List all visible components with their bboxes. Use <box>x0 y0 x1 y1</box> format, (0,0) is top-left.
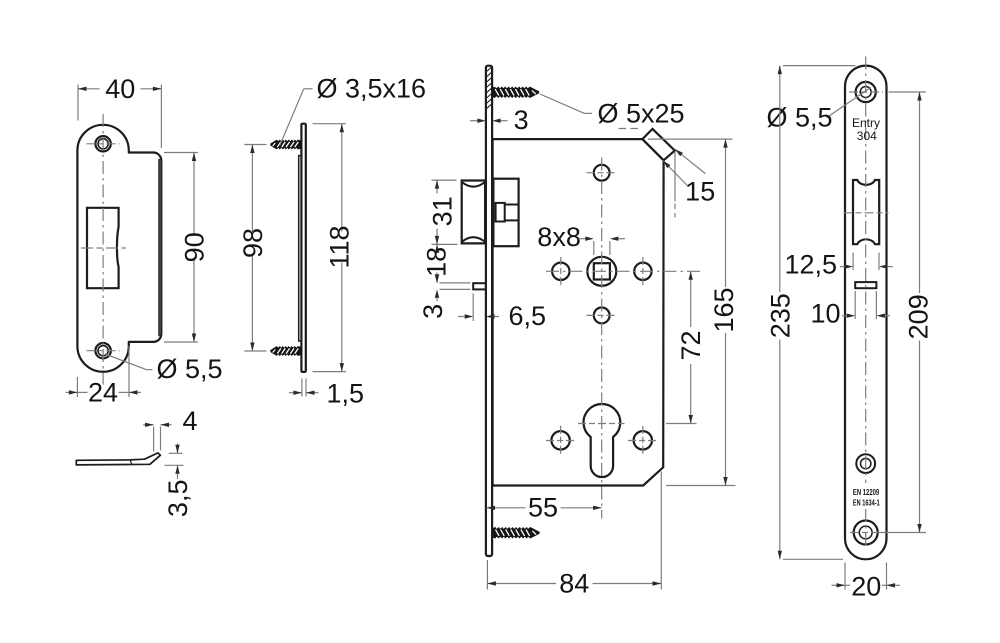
dim 6,5 extension line <box>472 294 474 322</box>
dim 3 right arrow <box>492 119 501 123</box>
dim 12,5 left extension line <box>852 253 854 271</box>
dim 6,5 dimension line <box>458 316 465 318</box>
strike plate vertical center line <box>102 114 104 385</box>
dim 31 bottom arrow <box>435 236 439 245</box>
svg-text:235: 235 <box>765 293 795 338</box>
strike plate bottom screw hole outer <box>95 343 110 358</box>
bottom hole horizontal center tick <box>87 350 120 352</box>
svg-text:24: 24 <box>88 378 118 408</box>
phantom dashes at tab top <box>619 128 643 130</box>
dim 3 stub arrow tails <box>436 273 438 275</box>
svg-text:98: 98 <box>238 228 268 258</box>
bent corner tab parallelogram <box>642 129 674 160</box>
dim 12,5 left arrow <box>845 264 854 268</box>
top hole center tick <box>587 172 618 174</box>
dim 8x8 right extension line <box>609 241 611 255</box>
dim 209 dimension line <box>919 92 921 293</box>
dim 118 bottom extension line <box>313 371 347 373</box>
lock vertical center line <box>601 158 603 519</box>
lock faceplate side bar <box>486 66 492 556</box>
top through hole <box>594 165 610 181</box>
bottom hole center tick <box>587 314 618 316</box>
top hole horizontal center tick <box>87 143 120 145</box>
svg-text:8x8: 8x8 <box>537 222 581 252</box>
label dia 5,5 right leader <box>827 88 871 118</box>
dim 24 right extension line <box>128 346 130 397</box>
faceplate roller cutout <box>853 180 879 244</box>
dim 15 upper arrow line <box>675 149 706 173</box>
svg-text:40: 40 <box>105 74 135 104</box>
faceplate top screw hole outer <box>856 82 876 102</box>
svg-text:304: 304 <box>857 129 877 143</box>
strike plate outline with lip, front view <box>77 125 161 372</box>
dim 8x8 right arrow line <box>618 238 625 240</box>
svg-text:72: 72 <box>676 330 706 360</box>
dim 3,5 bottom extension line <box>164 464 183 466</box>
dim 84 right arrow <box>653 581 662 585</box>
cyl right hole h tick <box>628 440 658 442</box>
svg-text:165: 165 <box>709 287 739 332</box>
dim 12,5 right arrow <box>879 264 888 268</box>
lock case outline with chamfered corners <box>493 139 664 485</box>
faceplate top hole h tick <box>849 91 883 93</box>
dim 84 left extension line <box>486 560 488 590</box>
faceplate bottom hole h tick <box>850 532 882 534</box>
dim 10 left extension line <box>854 291 856 319</box>
faceplate top screw hole inner <box>860 87 871 98</box>
dim 31 top extension line <box>432 179 457 181</box>
dim 1,5 right arrow <box>306 391 315 395</box>
svg-text:18: 18 <box>422 247 452 277</box>
dim 90 top extension line <box>164 152 198 154</box>
strike plate side view bar <box>301 124 305 372</box>
faceplate front outline <box>845 66 887 560</box>
dim 18 dimension line <box>436 244 438 249</box>
dim 15 lower arrow line <box>663 161 688 187</box>
follower square 8x8 <box>594 263 610 279</box>
dim 31 dimension line <box>436 180 438 193</box>
dim 209 bottom arrow <box>917 524 921 533</box>
dim 31 bottom extension line <box>432 243 458 245</box>
follower hub circle <box>587 257 616 286</box>
dim 3,5 dimension line <box>177 444 179 454</box>
svg-text:209: 209 <box>904 294 934 339</box>
dim 40 left extension line <box>77 85 79 121</box>
strike plate bottom screw hole inner <box>98 346 108 356</box>
dim 8x8 left arrow line <box>579 238 586 240</box>
hub left hole vertical tick <box>560 257 562 286</box>
lock faceplate hatching <box>486 67 492 73</box>
dim 3 left arrow <box>477 119 486 123</box>
label dia 3,5x16 leader <box>280 89 304 145</box>
svg-text:EN 12209: EN 12209 <box>853 488 880 497</box>
strike plate top screw hole inner <box>98 139 108 149</box>
dim 4 right extension line <box>160 427 162 451</box>
dim 12,5 right extension line <box>878 253 880 271</box>
svg-text:3: 3 <box>418 304 448 319</box>
dim 4 left extension line <box>153 427 155 452</box>
cylinder right screw hole <box>634 431 652 449</box>
dim 40 right arrow <box>153 87 162 91</box>
dim 118 bottom arrow <box>340 363 344 372</box>
faceplate fixing hole outer <box>856 454 875 473</box>
dim 10 right extension line <box>875 291 877 319</box>
dim 72 dimension line <box>690 271 692 327</box>
dim 15 upper arrow <box>675 149 683 156</box>
hub left hole <box>552 263 569 280</box>
dim 209 top arrow <box>917 92 921 101</box>
dim 4 dimension line <box>143 424 153 426</box>
top fixing screw 5x25 <box>493 87 539 98</box>
svg-text:Ø 5,5: Ø 5,5 <box>767 102 833 132</box>
cylinder left screw hole <box>551 431 569 449</box>
strike plate side view lip bar <box>299 156 302 341</box>
faceplate slot <box>855 282 876 288</box>
dim 235 dimension line <box>779 66 781 292</box>
dim 15 lower arrow <box>663 161 671 169</box>
dim 20 left extension line <box>844 563 846 590</box>
dim 90 top arrow <box>192 153 196 162</box>
dim 1,5 left extension line <box>301 378 303 396</box>
dim 24 dimension line <box>66 391 78 393</box>
svg-text:4: 4 <box>182 406 197 436</box>
latch guide lower line <box>505 219 519 221</box>
dim 118 dimension line <box>341 124 343 232</box>
dim 98 top arrow <box>250 145 254 154</box>
phantom line right of tab <box>674 151 676 201</box>
dim 3 stub top extension line <box>440 282 471 284</box>
svg-text:90: 90 <box>180 232 210 262</box>
dim 235 top arrow <box>778 66 782 75</box>
dim 55 left arrow <box>487 506 496 510</box>
faceplate fixing hole inner <box>861 458 871 468</box>
latch body box <box>493 179 518 247</box>
svg-text:Ø 5x25: Ø 5x25 <box>598 98 685 128</box>
dim 4 left arrow <box>145 423 154 427</box>
dim 235 top extension line <box>783 65 856 67</box>
label dia 5x25 leader <box>540 94 585 113</box>
bottom fixing screw 5x25 <box>493 527 539 538</box>
strike plate top screw hole outer <box>95 136 110 151</box>
dim 90 bottom arrow <box>192 334 196 343</box>
dim 8x8 right arrow <box>610 237 619 241</box>
faceplate stop stub <box>473 283 486 289</box>
svg-text:EN 1634-1: EN 1634-1 <box>853 498 880 507</box>
label dia 5,5 leader <box>105 354 146 370</box>
svg-text:31: 31 <box>428 196 458 226</box>
dim 24 left extension line <box>76 377 78 397</box>
dim 90 dimension line <box>193 153 195 237</box>
dim 20 dimension line <box>832 584 846 586</box>
dim 12,5 dimension line <box>840 266 845 268</box>
dim 235 bottom extension line <box>783 558 843 560</box>
hub right hole <box>634 263 651 280</box>
dim 98 bottom extension line <box>244 350 266 352</box>
dim 1,5 left arrow <box>293 391 302 395</box>
dim 165 bottom extension line <box>666 485 736 487</box>
dim 165 bottom arrow <box>723 477 727 486</box>
dim 3 stub bottom extension line <box>440 288 471 290</box>
svg-text:Ø 5,5: Ø 5,5 <box>157 354 223 384</box>
dim 235 bottom arrow <box>778 551 782 560</box>
bottom mounting screw 3,5x16 <box>271 347 302 356</box>
dim 55 dimension line <box>487 507 526 509</box>
roller center h tick <box>844 212 889 214</box>
dim 20 right arrow <box>887 583 896 587</box>
faceplate vertical center line <box>865 57 867 484</box>
dim 84 left arrow <box>487 581 496 585</box>
dim 165 top extension line <box>648 138 733 140</box>
dim 98 dimension line <box>251 145 253 232</box>
dim 90 bottom extension line <box>164 341 198 343</box>
dim 3,5 bottom arrow <box>175 465 179 474</box>
cyl left hole v tick <box>560 426 562 455</box>
dim 3,5 top arrow <box>175 445 179 454</box>
cylinder center h tick <box>578 423 625 425</box>
dim 209 bottom extension line <box>880 532 927 534</box>
dim 3 stub top arrow <box>435 274 439 283</box>
latch guide upper line <box>505 204 519 206</box>
lip bar side view outline <box>76 453 160 465</box>
dim 3 stub bottom arrow <box>435 289 439 298</box>
latch guide small box <box>496 203 505 222</box>
dim 165 dimension line <box>725 139 727 287</box>
cyl left hole h tick <box>546 440 576 442</box>
svg-text:20: 20 <box>851 571 881 601</box>
top mounting screw 3,5x16 <box>271 140 302 149</box>
dim 31 top arrow <box>435 180 439 189</box>
svg-text:3: 3 <box>514 105 529 135</box>
svg-text:84: 84 <box>559 568 589 598</box>
strike plate lip fold edge line <box>158 159 160 336</box>
dim 10 dimension line <box>842 315 847 317</box>
svg-text:15: 15 <box>685 177 715 207</box>
svg-text:3,5: 3,5 <box>163 480 193 518</box>
dim 10 left arrow <box>847 314 856 318</box>
svg-text:6,5: 6,5 <box>509 301 547 331</box>
dim 1,5 right extension line <box>305 378 307 396</box>
dim 20 right extension line <box>886 563 888 590</box>
svg-text:118: 118 <box>325 225 355 268</box>
lip bend crease line <box>130 460 132 464</box>
dim 98 top extension line <box>244 144 266 146</box>
dim 10 right arrow <box>876 314 885 318</box>
dim 55 right arrow <box>593 506 602 510</box>
dim 3 dimension line <box>470 120 479 122</box>
faceplate bottom screw hole outer <box>854 521 878 545</box>
dim 24 left arrow <box>69 390 78 394</box>
dim 84 dimension line <box>487 583 556 585</box>
bottom through hole <box>594 308 610 324</box>
dim 40 left arrow <box>78 87 87 91</box>
svg-text:12,5: 12,5 <box>785 250 838 280</box>
dim 24 right arrow <box>129 390 138 394</box>
dim 3,5 top extension line <box>169 452 183 454</box>
dim 209 top extension line <box>889 91 927 93</box>
dim 118 top arrow <box>340 124 344 133</box>
faceplate bottom screw hole inner <box>859 526 872 539</box>
dim 118 top extension line <box>313 123 347 125</box>
dim 72 top arrow <box>689 271 693 280</box>
cutout horizontal center tick <box>81 247 126 249</box>
dim 8x8 left extension line <box>593 241 595 255</box>
dim 1,5 dimension line <box>289 392 302 394</box>
dim 72 bottom extension line <box>666 423 697 425</box>
dim 6,5 left arrow <box>465 314 474 318</box>
dim 72 bottom arrow <box>689 415 693 424</box>
hub horizontal center line <box>546 270 700 272</box>
cyl right hole v tick <box>642 426 644 455</box>
svg-text:10: 10 <box>811 299 841 329</box>
dim 18 top arrow <box>435 244 439 253</box>
svg-text:1,5: 1,5 <box>327 379 365 409</box>
svg-text:Ø 3,5x16: Ø 3,5x16 <box>317 74 427 104</box>
dim 98 bottom arrow <box>250 343 254 352</box>
hub right hole vertical tick <box>642 257 644 286</box>
dim 40 right extension line <box>160 85 162 149</box>
dim 8x8 left arrow <box>585 237 594 241</box>
dim 6,5 right arrow <box>486 314 495 318</box>
dim 40 dimension line <box>78 88 100 90</box>
strike plate latch cutout with curved deflector edge <box>87 208 119 288</box>
dim 165 top arrow <box>723 139 727 148</box>
dim 4 right arrow <box>161 423 170 427</box>
euro profile cylinder hole <box>584 404 621 477</box>
dim 84 right extension line <box>660 472 662 590</box>
latch roller front (spool) <box>462 181 485 244</box>
dim 20 left arrow <box>837 583 846 587</box>
svg-text:Entry: Entry <box>852 116 880 130</box>
dim 18 bottom arrow <box>435 274 439 283</box>
svg-text:55: 55 <box>528 493 558 523</box>
